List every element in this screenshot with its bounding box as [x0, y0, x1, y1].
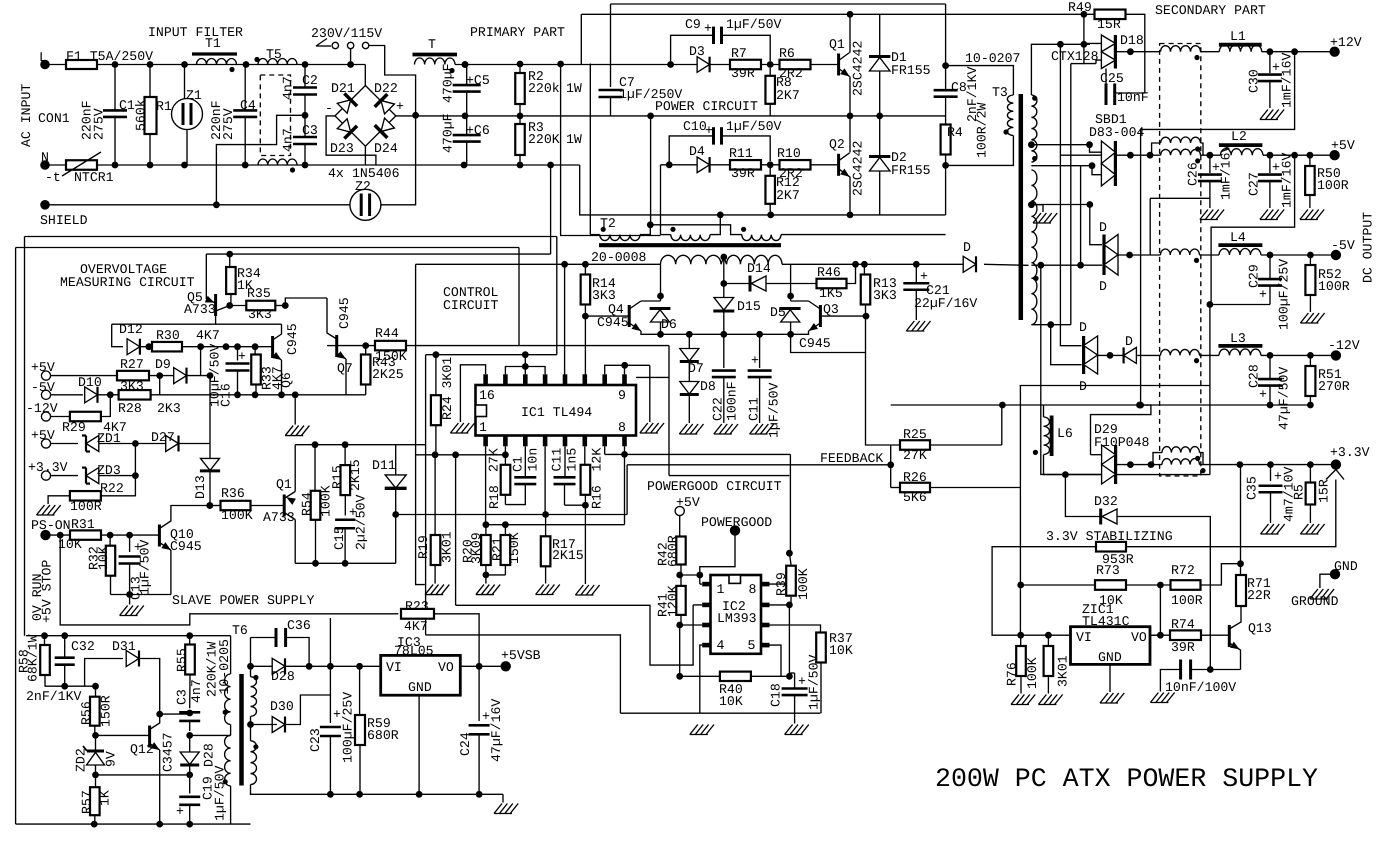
svg-text:IC1 TL494: IC1 TL494 — [521, 405, 592, 420]
svg-text:12K: 12K — [590, 448, 605, 472]
svg-text:PRIMARY PART: PRIMARY PART — [470, 25, 565, 40]
resistor R52 100R — [1309, 255, 1311, 265]
svg-text:R56: R56 — [79, 701, 94, 725]
svg-text:R31: R31 — [71, 517, 95, 532]
node — [666, 161, 673, 168]
wire Q1 emitter col — [294, 445, 296, 492]
svg-text:27K: 27K — [487, 448, 502, 472]
svg-text:VO: VO — [1131, 630, 1147, 645]
svg-text:POWERGOOD CIRCUIT: POWERGOOD CIRCUIT — [647, 479, 782, 494]
node — [717, 212, 724, 219]
node — [667, 61, 674, 68]
svg-text:20-0008: 20-0008 — [591, 250, 646, 265]
IC2 pins — [702, 582, 710, 587]
resistor R16 12K — [584, 446, 586, 465]
wire — [99, 443, 210, 445]
resistor R49 15R — [1095, 10, 1126, 19]
wire rail2 top — [581, 13, 1094, 15]
node — [686, 331, 693, 338]
ground — [1260, 110, 1284, 120]
wire r49 feed — [1083, 14, 1085, 44]
svg-text:D30: D30 — [270, 699, 294, 714]
wire pg riser2 — [789, 454, 791, 553]
wire c26 branch — [1150, 197, 1210, 199]
wire W2 bottom — [230, 786, 232, 824]
node — [206, 502, 213, 509]
svg-text:L3: L3 — [1230, 331, 1246, 346]
wire Q1 emitter — [849, 77, 851, 116]
svg-text:R23: R23 — [405, 599, 429, 614]
svg-text:4x: 4x — [328, 166, 344, 181]
ground — [1261, 524, 1285, 534]
wire d32 out — [1117, 517, 1210, 670]
svg-text:2SC4242: 2SC4242 — [851, 41, 866, 96]
svg-text:C23: C23 — [308, 728, 323, 752]
terminal +5V — [1329, 150, 1339, 160]
svg-text:R19: R19 — [416, 535, 431, 559]
svg-text:D24: D24 — [374, 141, 398, 156]
svg-text:D10: D10 — [78, 375, 102, 390]
svg-text:C3457: C3457 — [161, 732, 176, 772]
wire -12V return rail — [891, 404, 1311, 406]
wire bridge top feed — [364, 65, 366, 86]
svg-text:C945: C945 — [285, 323, 300, 355]
node — [647, 113, 654, 120]
svg-text:1K: 1K — [98, 790, 113, 806]
svg-text:R73: R73 — [1096, 563, 1120, 578]
svg-text:10nF: 10nF — [1117, 90, 1149, 105]
node — [517, 113, 524, 120]
node — [186, 772, 193, 779]
capacitor C22 100nF — [723, 334, 725, 368]
svg-text:D18: D18 — [1120, 33, 1144, 48]
node — [852, 261, 859, 268]
ground — [129, 595, 131, 605]
center tap — [721, 257, 724, 264]
resistor R76 100K — [1020, 635, 1022, 646]
svg-text:2K15: 2K15 — [348, 459, 363, 491]
emitter row — [661, 333, 791, 335]
svg-text:1W: 1W — [566, 132, 582, 147]
transistor Q2 2SC4242 — [837, 154, 840, 176]
svg-text:R4: R4 — [947, 125, 963, 140]
wire — [101, 495, 135, 497]
svg-text:D: D — [1079, 320, 1087, 335]
svg-text:150K: 150K — [507, 532, 522, 564]
lower drive rail — [661, 164, 839, 166]
svg-text:220k: 220k — [528, 81, 560, 96]
resistor R59 680R — [359, 666, 361, 715]
node — [1267, 48, 1274, 55]
capacitor C36 — [275, 628, 278, 647]
wire — [101, 534, 159, 536]
wire rail2 long drop — [425, 445, 427, 635]
resistor R17 2K15 — [545, 515, 547, 537]
svg-text:4: 4 — [717, 638, 725, 653]
svg-text:R24: R24 — [440, 396, 455, 420]
svg-text:R30: R30 — [156, 328, 180, 343]
svg-text:C18: C18 — [769, 683, 784, 707]
svg-text:-12V: -12V — [1328, 338, 1360, 353]
capacitor C3 — [304, 118, 306, 137]
node — [186, 732, 193, 739]
node — [913, 261, 920, 268]
wire to IC2 pin2 — [456, 605, 693, 665]
ground — [294, 395, 296, 425]
wire pin4 col — [544, 446, 546, 514]
wire sbd lower row — [1031, 165, 1092, 167]
resistor R55 220K/1W — [189, 636, 191, 645]
snubber C8 R4 — [945, 4, 947, 66]
node — [676, 572, 683, 579]
node — [547, 162, 554, 169]
capacitor C1 10n — [524, 446, 526, 477]
svg-text:15R: 15R — [1097, 17, 1121, 32]
svg-text:C11: C11 — [747, 397, 762, 421]
ground — [476, 585, 500, 595]
resistor R40 10K — [680, 675, 720, 677]
svg-text:C36: C36 — [287, 618, 311, 633]
node — [306, 663, 313, 670]
node — [720, 331, 727, 338]
svg-text:1µF/50V: 1µF/50V — [726, 119, 781, 134]
svg-text:Q7: Q7 — [337, 361, 353, 376]
svg-text:4n7: 4n7 — [281, 128, 296, 152]
wire -5V upper anode — [1090, 205, 1102, 245]
svg-text:+: + — [1259, 287, 1267, 302]
capacitor C21 22uF/16V — [915, 264, 917, 282]
ground — [536, 585, 560, 595]
svg-text:10K: 10K — [719, 694, 743, 709]
node — [243, 61, 250, 68]
capacitor C11 1uF/50V — [759, 334, 761, 368]
wire — [99, 475, 135, 477]
svg-text:D: D — [1125, 334, 1133, 349]
dual rectifier diode — [1114, 35, 1117, 69]
ground — [1033, 213, 1057, 223]
svg-text:R35: R35 — [247, 286, 271, 301]
svg-text:3K3: 3K3 — [592, 288, 616, 303]
node pin7 — [786, 602, 793, 609]
svg-text:R54: R54 — [300, 492, 315, 516]
svg-text:+: + — [1259, 387, 1267, 402]
diode D22 — [375, 94, 396, 115]
svg-text:16: 16 — [479, 388, 495, 403]
ground — [450, 423, 474, 433]
svg-text:100µF/25V: 100µF/25V — [341, 692, 356, 763]
svg-text:100R: 100R — [1317, 178, 1349, 193]
node — [156, 821, 163, 828]
svg-text:SHIELD: SHIELD — [40, 213, 88, 228]
transistor Q1 2SC4242 — [837, 54, 840, 76]
node — [1107, 352, 1114, 359]
wire 4K7 riser — [329, 618, 331, 666]
svg-text:275V: 275V — [221, 108, 236, 140]
wire 264 rail right — [782, 263, 968, 265]
dashed isolation box — [1160, 44, 1201, 477]
wire — [45, 164, 66, 166]
capacitor C25 10nF — [1105, 69, 1107, 84]
svg-text:D22: D22 — [374, 81, 398, 96]
wire sec center tap — [1028, 141, 1035, 148]
vertical bus c — [1071, 63, 1084, 65]
svg-text:D: D — [1099, 220, 1107, 235]
ground symbol — [1320, 574, 1335, 588]
resistor R7 39R — [730, 60, 761, 70]
wire R22 gnd — [48, 496, 70, 504]
svg-text:C32: C32 — [71, 639, 95, 654]
svg-text:T6: T6 — [232, 623, 248, 638]
winding in box — [1161, 349, 1200, 355]
svg-text:R18: R18 — [487, 485, 502, 509]
node — [356, 663, 363, 670]
node — [156, 711, 163, 718]
capacitor C27 1mF/16V — [1269, 155, 1271, 173]
svg-text:D11: D11 — [372, 458, 396, 473]
node — [252, 391, 259, 398]
node — [676, 622, 683, 629]
svg-text:VO: VO — [438, 660, 454, 675]
wire pin5 route — [770, 645, 782, 676]
node — [1017, 632, 1024, 639]
svg-text:R25: R25 — [903, 427, 927, 442]
wire — [205, 254, 207, 299]
svg-text:275V: 275V — [92, 108, 107, 140]
svg-text:1µF/50V: 1µF/50V — [726, 17, 781, 32]
svg-text:C945: C945 — [597, 315, 629, 330]
wire Q5 base — [112, 316, 216, 324]
wire switch stem — [350, 49, 352, 65]
voltage selector switch — [316, 45, 331, 47]
ground ic right — [649, 365, 651, 422]
svg-text:R72: R72 — [1171, 563, 1195, 578]
svg-text:470µF: 470µF — [441, 113, 456, 153]
node — [1291, 48, 1298, 55]
capacitor C18 1uF/50V — [788, 605, 790, 673]
node — [181, 162, 188, 169]
wire D29 lower feed — [1041, 265, 1102, 474]
capacitor C35 4m7/10V — [1270, 465, 1272, 481]
choke T5 winding bottom — [258, 159, 297, 165]
capacitor C23 100uF/25V — [329, 666, 331, 723]
ground — [1300, 210, 1324, 220]
wire Q3 collector — [791, 300, 809, 302]
svg-text:C24: C24 — [458, 732, 473, 756]
wire — [275, 305, 285, 307]
capacitor C2 — [304, 65, 306, 88]
choke L6 — [1050, 416, 1054, 457]
wire W3 riser — [250, 638, 252, 667]
wire Z2 to midpoint — [381, 115, 416, 205]
node — [327, 791, 334, 798]
node — [476, 791, 483, 798]
node — [186, 821, 193, 828]
capacitor C26 1mF/16V — [1209, 155, 1211, 173]
wire — [187, 375, 211, 377]
svg-text:R27: R27 — [120, 357, 144, 372]
node — [1267, 252, 1274, 259]
IC IC2 LM393 — [711, 575, 762, 654]
node — [302, 162, 309, 169]
wire — [149, 375, 173, 377]
node — [181, 61, 188, 68]
node — [847, 113, 854, 120]
node — [657, 293, 664, 300]
node — [347, 61, 354, 68]
wire IC3 gnd — [418, 695, 420, 794]
wire 3.3 sense arrow — [1326, 470, 1336, 480]
node — [92, 732, 99, 739]
node — [1307, 252, 1314, 259]
svg-text:1W: 1W — [566, 81, 582, 96]
resistor R23 4K7 — [401, 609, 434, 619]
L5 windings in box — [1151, 453, 1162, 465]
node — [147, 162, 154, 169]
svg-text:9V: 9V — [104, 751, 119, 767]
svg-text:100nF: 100nF — [725, 381, 740, 421]
wire feedback riser — [626, 465, 628, 515]
svg-text:+: + — [798, 674, 806, 689]
capacitor C28 47uF/50V — [1269, 355, 1271, 378]
svg-text:220K: 220K — [528, 132, 560, 147]
node — [342, 560, 349, 567]
svg-text:+: + — [751, 353, 759, 368]
svg-text:CIRCUIT: CIRCUIT — [443, 298, 498, 313]
node — [91, 821, 98, 828]
resistor R20 3K09 — [485, 525, 487, 535]
wire W1 bottom — [230, 725, 232, 736]
wire sec top — [1031, 44, 1090, 95]
wire mid drop to T2 — [650, 116, 652, 225]
svg-text:1: 1 — [479, 420, 487, 435]
svg-text:R46: R46 — [817, 265, 841, 280]
svg-text:15R: 15R — [1317, 479, 1332, 503]
resistor R1 560k — [149, 65, 151, 98]
node — [861, 261, 868, 268]
row A 514.5 — [396, 514, 627, 516]
svg-text:C30: C30 — [1247, 69, 1262, 93]
node — [1081, 41, 1088, 48]
node — [147, 61, 154, 68]
svg-text:C27: C27 — [1247, 172, 1262, 196]
diode D8 — [688, 362, 690, 382]
svg-text:270R: 270R — [1318, 379, 1350, 394]
svg-text:D7: D7 — [688, 361, 704, 376]
svg-text:C4: C4 — [240, 98, 256, 113]
wire to drive transformer — [580, 165, 946, 215]
resistor R15 2K15 — [344, 445, 346, 466]
node D29 out — [1127, 461, 1134, 468]
ground — [679, 424, 703, 434]
svg-text:AC INPUT: AC INPUT — [19, 84, 34, 147]
wire — [45, 685, 96, 687]
wire pin8 col — [624, 446, 626, 524]
svg-text:47µF/50V: 47µF/50V — [1277, 367, 1292, 430]
diode D10 — [85, 387, 98, 403]
wire — [565, 504, 586, 506]
rail 394.8 — [160, 394, 366, 396]
diode D21 — [336, 93, 357, 114]
svg-text:230V/115V: 230V/115V — [311, 26, 382, 41]
wire W2 top — [190, 734, 231, 736]
wire pin7 row — [604, 446, 606, 454]
resistor R12 2K7 — [769, 168, 771, 176]
T2 sec winding B — [727, 255, 782, 264]
wire 3.3 return — [1052, 474, 1210, 476]
svg-text:68K/1W: 68K/1W — [26, 634, 41, 682]
wire shield rail — [45, 204, 350, 206]
capacitor C24 47uF/16V — [478, 666, 480, 721]
diode D9 — [174, 368, 187, 384]
resistor R34 1K — [226, 251, 233, 258]
wire border v2 — [15, 248, 17, 825]
svg-text:1mF/16V: 1mF/16V — [1280, 153, 1295, 208]
svg-text:D8: D8 — [700, 379, 716, 394]
svg-text:5: 5 — [748, 638, 756, 653]
wire bridge bottom — [364, 146, 366, 165]
svg-text:C29: C29 — [1247, 264, 1262, 288]
svg-text:+: + — [396, 99, 404, 114]
wire -12V lower anode — [1051, 325, 1082, 365]
resistor R73 10K — [1021, 584, 1096, 586]
svg-text:10K: 10K — [829, 643, 853, 658]
svg-text:2K7: 2K7 — [776, 88, 800, 103]
capacitor C11 1n5 — [554, 476, 576, 479]
svg-text:C3: C3 — [302, 123, 318, 138]
svg-text:C10: C10 — [683, 119, 707, 134]
resistor R2 220k — [519, 65, 521, 74]
wire collector link — [160, 713, 190, 715]
wire Q2 collector — [849, 116, 851, 153]
node — [126, 591, 133, 598]
resistor R57 1K — [95, 775, 97, 787]
svg-text:3K3: 3K3 — [248, 307, 272, 322]
vertical bus a — [1060, 44, 1081, 345]
resistor R6 2R2 — [780, 60, 811, 70]
IC1 pins bottom — [483, 436, 488, 447]
diode D28b — [180, 752, 199, 765]
node — [234, 391, 241, 398]
node — [999, 402, 1006, 409]
svg-text:C35: C35 — [1245, 476, 1260, 500]
svg-text:R6: R6 — [779, 46, 795, 61]
node — [1207, 152, 1214, 159]
wire — [200, 347, 202, 376]
svg-text:R7: R7 — [731, 46, 747, 61]
row B 524.7 — [486, 524, 625, 526]
node — [1157, 582, 1164, 589]
T3 secondary winding lower — [1031, 170, 1037, 325]
rail3 455 — [416, 454, 506, 456]
capacitor C29 100uF/25V — [1269, 255, 1271, 278]
resistor R25 27K — [900, 440, 930, 450]
wire — [751, 675, 789, 677]
fuse F1 — [66, 60, 97, 69]
node — [1307, 152, 1314, 159]
wire +12V rail — [1201, 51, 1220, 53]
svg-text:680R: 680R — [666, 535, 681, 567]
capacitor C7 — [610, 4, 612, 87]
resistor R28 2K3 — [119, 390, 151, 400]
svg-text:+5V STOP: +5V STOP — [40, 560, 55, 623]
wire outer top rail — [611, 3, 946, 5]
svg-text:-: - — [325, 101, 333, 116]
svg-text:C9: C9 — [685, 17, 701, 32]
wire Q13 base — [1201, 634, 1230, 636]
svg-text:10nF/100V: 10nF/100V — [1165, 680, 1236, 695]
wire zd link — [134, 444, 136, 497]
node — [92, 772, 99, 779]
